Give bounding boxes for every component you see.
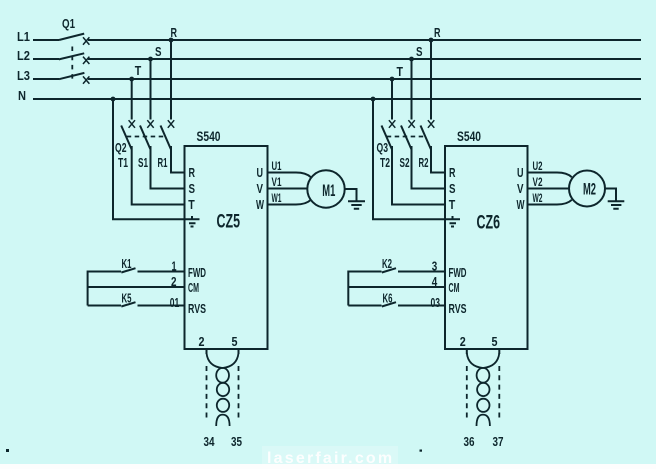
contactor Q2 blade (pole R) xyxy=(161,126,172,150)
cable shield dashed (left unit, left side) xyxy=(206,366,208,420)
svg-text:laserfair.com: laserfair.com xyxy=(267,450,394,467)
svg-text:5: 5 xyxy=(232,334,238,349)
wire CM line (right) xyxy=(348,286,445,288)
svg-text:V1: V1 xyxy=(272,175,282,189)
svg-text:M2: M2 xyxy=(583,180,596,199)
svg-text:34: 34 xyxy=(204,435,215,449)
svg-text:RVS: RVS xyxy=(449,302,467,316)
svg-text:W1: W1 xyxy=(272,191,282,205)
svg-text:FWD: FWD xyxy=(188,266,206,280)
wire T drop (right) xyxy=(391,79,393,120)
twisted pair loop 3 (right) xyxy=(477,399,489,412)
svg-text:T: T xyxy=(449,197,456,212)
svg-text:T: T xyxy=(397,64,404,79)
wire L1 rail xyxy=(33,39,59,41)
svg-text:V2: V2 xyxy=(533,175,543,189)
svg-text:36: 36 xyxy=(464,435,475,449)
wire S2 to inverter pin S xyxy=(412,146,446,189)
wire K5 to inverter pin RVS with pin number 01 xyxy=(138,305,185,307)
inverter U2 body CZ6 xyxy=(445,146,528,349)
svg-text:CM: CM xyxy=(449,281,460,295)
switch K1 blade xyxy=(121,268,135,272)
wire terminal 5 stub (left unit) xyxy=(238,349,240,354)
contactor Q3 contact X (pole T) xyxy=(389,120,395,128)
contactor Q3 contact X (pole R) xyxy=(428,120,434,128)
svg-text:T1: T1 xyxy=(118,156,128,170)
svg-text:RVS: RVS xyxy=(188,302,206,316)
wire R2 to inverter pin R xyxy=(431,146,445,173)
svg-text:T: T xyxy=(135,63,142,78)
svg-text:S2: S2 xyxy=(400,156,410,170)
wire terminal 2 stub (right unit) xyxy=(466,349,468,354)
wire N drop to ground (left) xyxy=(113,99,186,219)
cable shield dashed (right unit, left side) xyxy=(466,366,468,420)
watermark haze xyxy=(262,446,398,465)
svg-text:R2: R2 xyxy=(419,156,429,170)
wire L3 rail right / net T xyxy=(88,78,641,80)
inverter U1 body CZ5 xyxy=(185,146,268,349)
motor M2 circle xyxy=(569,171,605,207)
wire RVS line from K bus xyxy=(88,305,121,307)
contactor Q3 mechanical link (dashed) xyxy=(387,136,426,138)
svg-text:V: V xyxy=(257,181,264,196)
svg-text:03: 03 xyxy=(431,296,441,310)
wire W2 motor phase W xyxy=(528,200,572,205)
svg-text:U: U xyxy=(257,165,264,180)
contactor Q2 mechanical link (dashed) xyxy=(127,136,164,138)
svg-text:S540: S540 xyxy=(457,128,481,144)
svg-text:R: R xyxy=(434,25,441,40)
svg-text:FWD: FWD xyxy=(449,266,467,280)
stray ink dot bottom-left xyxy=(6,449,9,452)
breaker Q1 mechanical link (dashed) xyxy=(71,47,73,80)
twisted pair loop 1 (left) xyxy=(216,368,229,383)
breaker Q1 pole 2 contact X xyxy=(83,57,89,64)
svg-text:CZ6: CZ6 xyxy=(477,213,501,234)
wire T drop (left) xyxy=(131,79,133,120)
wire K1 to inverter pin FWD with pin number 1 xyxy=(138,271,185,273)
svg-text:U2: U2 xyxy=(533,159,543,173)
svg-text:U: U xyxy=(517,165,524,180)
wire L2 rail xyxy=(33,58,59,60)
wire RVS line from K bus (right) xyxy=(348,305,381,307)
wire U2 motor phase U xyxy=(528,173,572,178)
contactor Q2 contact X (pole S) xyxy=(147,120,153,128)
svg-text:S: S xyxy=(416,44,423,59)
wire T1 to inverter pin T xyxy=(132,146,185,205)
svg-text:T: T xyxy=(188,197,195,212)
wire K2 to inverter pin FWD with pin number 3 xyxy=(398,271,445,273)
wire L3 rail xyxy=(33,78,59,80)
wire V2 motor phase V xyxy=(528,188,570,190)
wire CM line xyxy=(88,286,185,288)
svg-text:2: 2 xyxy=(171,275,177,289)
junction dot N drop (right) xyxy=(371,97,376,102)
svg-text:T2: T2 xyxy=(380,156,390,170)
wire L1 rail right / net R xyxy=(88,39,641,41)
junction dot R-L1 (left) xyxy=(169,38,174,43)
ground symbol at M1 xyxy=(348,201,365,208)
svg-text:4: 4 xyxy=(432,275,438,289)
wire N rail xyxy=(33,98,641,100)
twisted pair end loop (left) xyxy=(216,415,229,426)
wire T2 to inverter pin T xyxy=(392,146,445,205)
breaker Q1 pole 3 blade xyxy=(59,73,84,79)
wire R drop (left) xyxy=(170,40,172,120)
wire W1 motor phase W xyxy=(268,200,311,205)
wire K bus vertical (left) xyxy=(87,271,89,306)
wire V1 motor phase V xyxy=(268,188,308,190)
wire S drop (right) xyxy=(411,59,413,120)
contactor Q3 blade (pole R) xyxy=(421,126,432,150)
wire K bus vertical (right) xyxy=(347,271,349,306)
wire terminal 2 stub (left unit) xyxy=(206,349,208,354)
wire R1 to inverter pin R xyxy=(171,146,185,173)
twisted pair loop 3 (left) xyxy=(217,399,229,412)
inverter U2 earth terminal (ground symbol) xyxy=(447,216,461,227)
svg-text:2: 2 xyxy=(460,334,466,349)
switch K6 blade xyxy=(382,302,396,306)
cable shield dashed (right unit, right side) xyxy=(498,366,500,420)
svg-text:W: W xyxy=(517,197,525,212)
svg-text:S: S xyxy=(155,44,162,59)
wire L2 rail right / net S xyxy=(88,58,641,60)
twisted pair cable funnel (left unit) xyxy=(207,353,239,368)
svg-text:L1: L1 xyxy=(17,29,30,44)
junction dot S-L2 (left) xyxy=(148,57,153,62)
contactor Q3 blade (pole S) xyxy=(401,126,412,150)
stray ink tick near 36 xyxy=(420,450,423,452)
wire M1 to ground xyxy=(345,189,357,201)
svg-text:L2: L2 xyxy=(17,48,30,63)
svg-text:U1: U1 xyxy=(272,159,282,173)
contactor Q3 blade (pole T) xyxy=(382,126,393,150)
contactor Q2 blade (pole S) xyxy=(140,126,151,150)
contactor Q2 contact X (pole R) xyxy=(168,120,174,128)
svg-text:R: R xyxy=(449,165,456,180)
breaker Q1 pole 1 blade xyxy=(59,34,84,40)
wire U1 motor phase U xyxy=(268,173,311,178)
svg-text:M1: M1 xyxy=(322,181,335,200)
svg-text:L3: L3 xyxy=(17,68,30,83)
svg-text:Q1: Q1 xyxy=(62,16,75,31)
junction dot T-L3 (right) xyxy=(390,77,395,82)
junction dot R-L1 (right) xyxy=(429,38,434,43)
svg-text:Q3: Q3 xyxy=(377,141,389,155)
breaker Q1 pole 2 blade xyxy=(59,53,84,59)
svg-text:37: 37 xyxy=(493,435,504,449)
motor M1 circle xyxy=(307,170,344,207)
svg-text:35: 35 xyxy=(231,435,242,449)
svg-text:N: N xyxy=(18,88,26,103)
breaker Q1 pole 3 contact X xyxy=(83,76,89,83)
twisted pair end loop (right) xyxy=(477,415,490,426)
svg-text:S540: S540 xyxy=(197,128,221,144)
wire M2 to ground xyxy=(605,189,616,201)
inverter U1 earth terminal (ground symbol) xyxy=(186,216,200,227)
svg-text:CZ5: CZ5 xyxy=(217,212,241,233)
wire S1 to inverter pin S xyxy=(151,146,185,189)
ground symbol at M2 xyxy=(608,201,625,208)
wire FWD line from K bus xyxy=(88,271,121,273)
switch K5 blade xyxy=(121,302,135,306)
twisted pair loop 1 (right) xyxy=(477,368,490,383)
junction dot S-L2 (right) xyxy=(409,57,414,62)
switch K2 blade xyxy=(382,268,396,272)
contactor Q2 contact X (pole T) xyxy=(129,120,135,128)
contactor Q2 blade (pole T) xyxy=(121,126,132,150)
svg-text:01: 01 xyxy=(170,296,180,310)
svg-text:CM: CM xyxy=(188,281,199,295)
svg-text:W2: W2 xyxy=(533,191,543,205)
svg-text:R: R xyxy=(189,165,196,180)
svg-text:Q2: Q2 xyxy=(115,141,127,155)
svg-text:S: S xyxy=(449,181,456,196)
breaker Q1 pole 1 contact X xyxy=(83,37,89,44)
junction dot T-L3 (left) xyxy=(129,77,134,82)
wire terminal 5 stub (right unit) xyxy=(498,349,500,354)
twisted pair cable funnel (right unit) xyxy=(467,353,500,368)
wire N drop to ground (right) xyxy=(373,99,447,219)
wire FWD line from K bus (right) xyxy=(348,271,381,273)
svg-text:1: 1 xyxy=(172,260,177,274)
contactor Q3 contact X (pole S) xyxy=(408,120,414,128)
wire R drop (right) xyxy=(430,40,432,120)
wire S drop (left) xyxy=(150,59,152,120)
svg-text:S1: S1 xyxy=(138,156,148,170)
svg-text:2: 2 xyxy=(199,334,205,349)
cable shield dashed (left unit, right side) xyxy=(238,366,240,420)
svg-text:3: 3 xyxy=(432,260,438,274)
twisted pair loop 2 (left) xyxy=(217,383,229,396)
twisted pair loop 2 (right) xyxy=(477,383,489,396)
svg-text:R1: R1 xyxy=(158,156,168,170)
svg-text:S: S xyxy=(189,181,196,196)
svg-text:V: V xyxy=(517,181,524,196)
wire K6 to inverter pin RVS with pin number 03 xyxy=(398,305,445,307)
svg-text:W: W xyxy=(256,197,264,212)
junction dot N drop (left) xyxy=(111,97,116,102)
svg-text:5: 5 xyxy=(492,334,498,349)
